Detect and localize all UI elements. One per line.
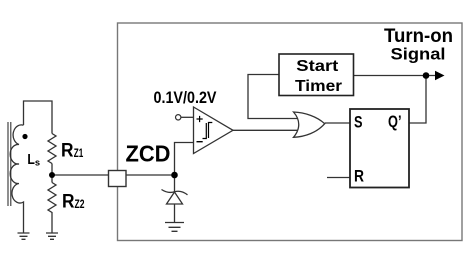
svg-text:Z2: Z2 bbox=[75, 199, 85, 211]
svg-text:S: S bbox=[354, 113, 363, 132]
svg-text:R: R bbox=[354, 167, 364, 186]
svg-text:0.1V/0.2V: 0.1V/0.2V bbox=[154, 89, 217, 107]
svg-text:ZCD: ZCD bbox=[126, 141, 171, 167]
svg-text:R: R bbox=[61, 141, 74, 162]
svg-text:Start: Start bbox=[296, 58, 339, 75]
svg-text:Z1: Z1 bbox=[74, 148, 84, 160]
svg-text:Q’: Q’ bbox=[388, 112, 402, 131]
svg-text:Timer: Timer bbox=[295, 78, 342, 95]
svg-text:R: R bbox=[62, 192, 75, 213]
svg-text:L: L bbox=[27, 151, 35, 168]
svg-text:s: s bbox=[35, 157, 40, 168]
svg-text:Signal: Signal bbox=[391, 45, 446, 64]
